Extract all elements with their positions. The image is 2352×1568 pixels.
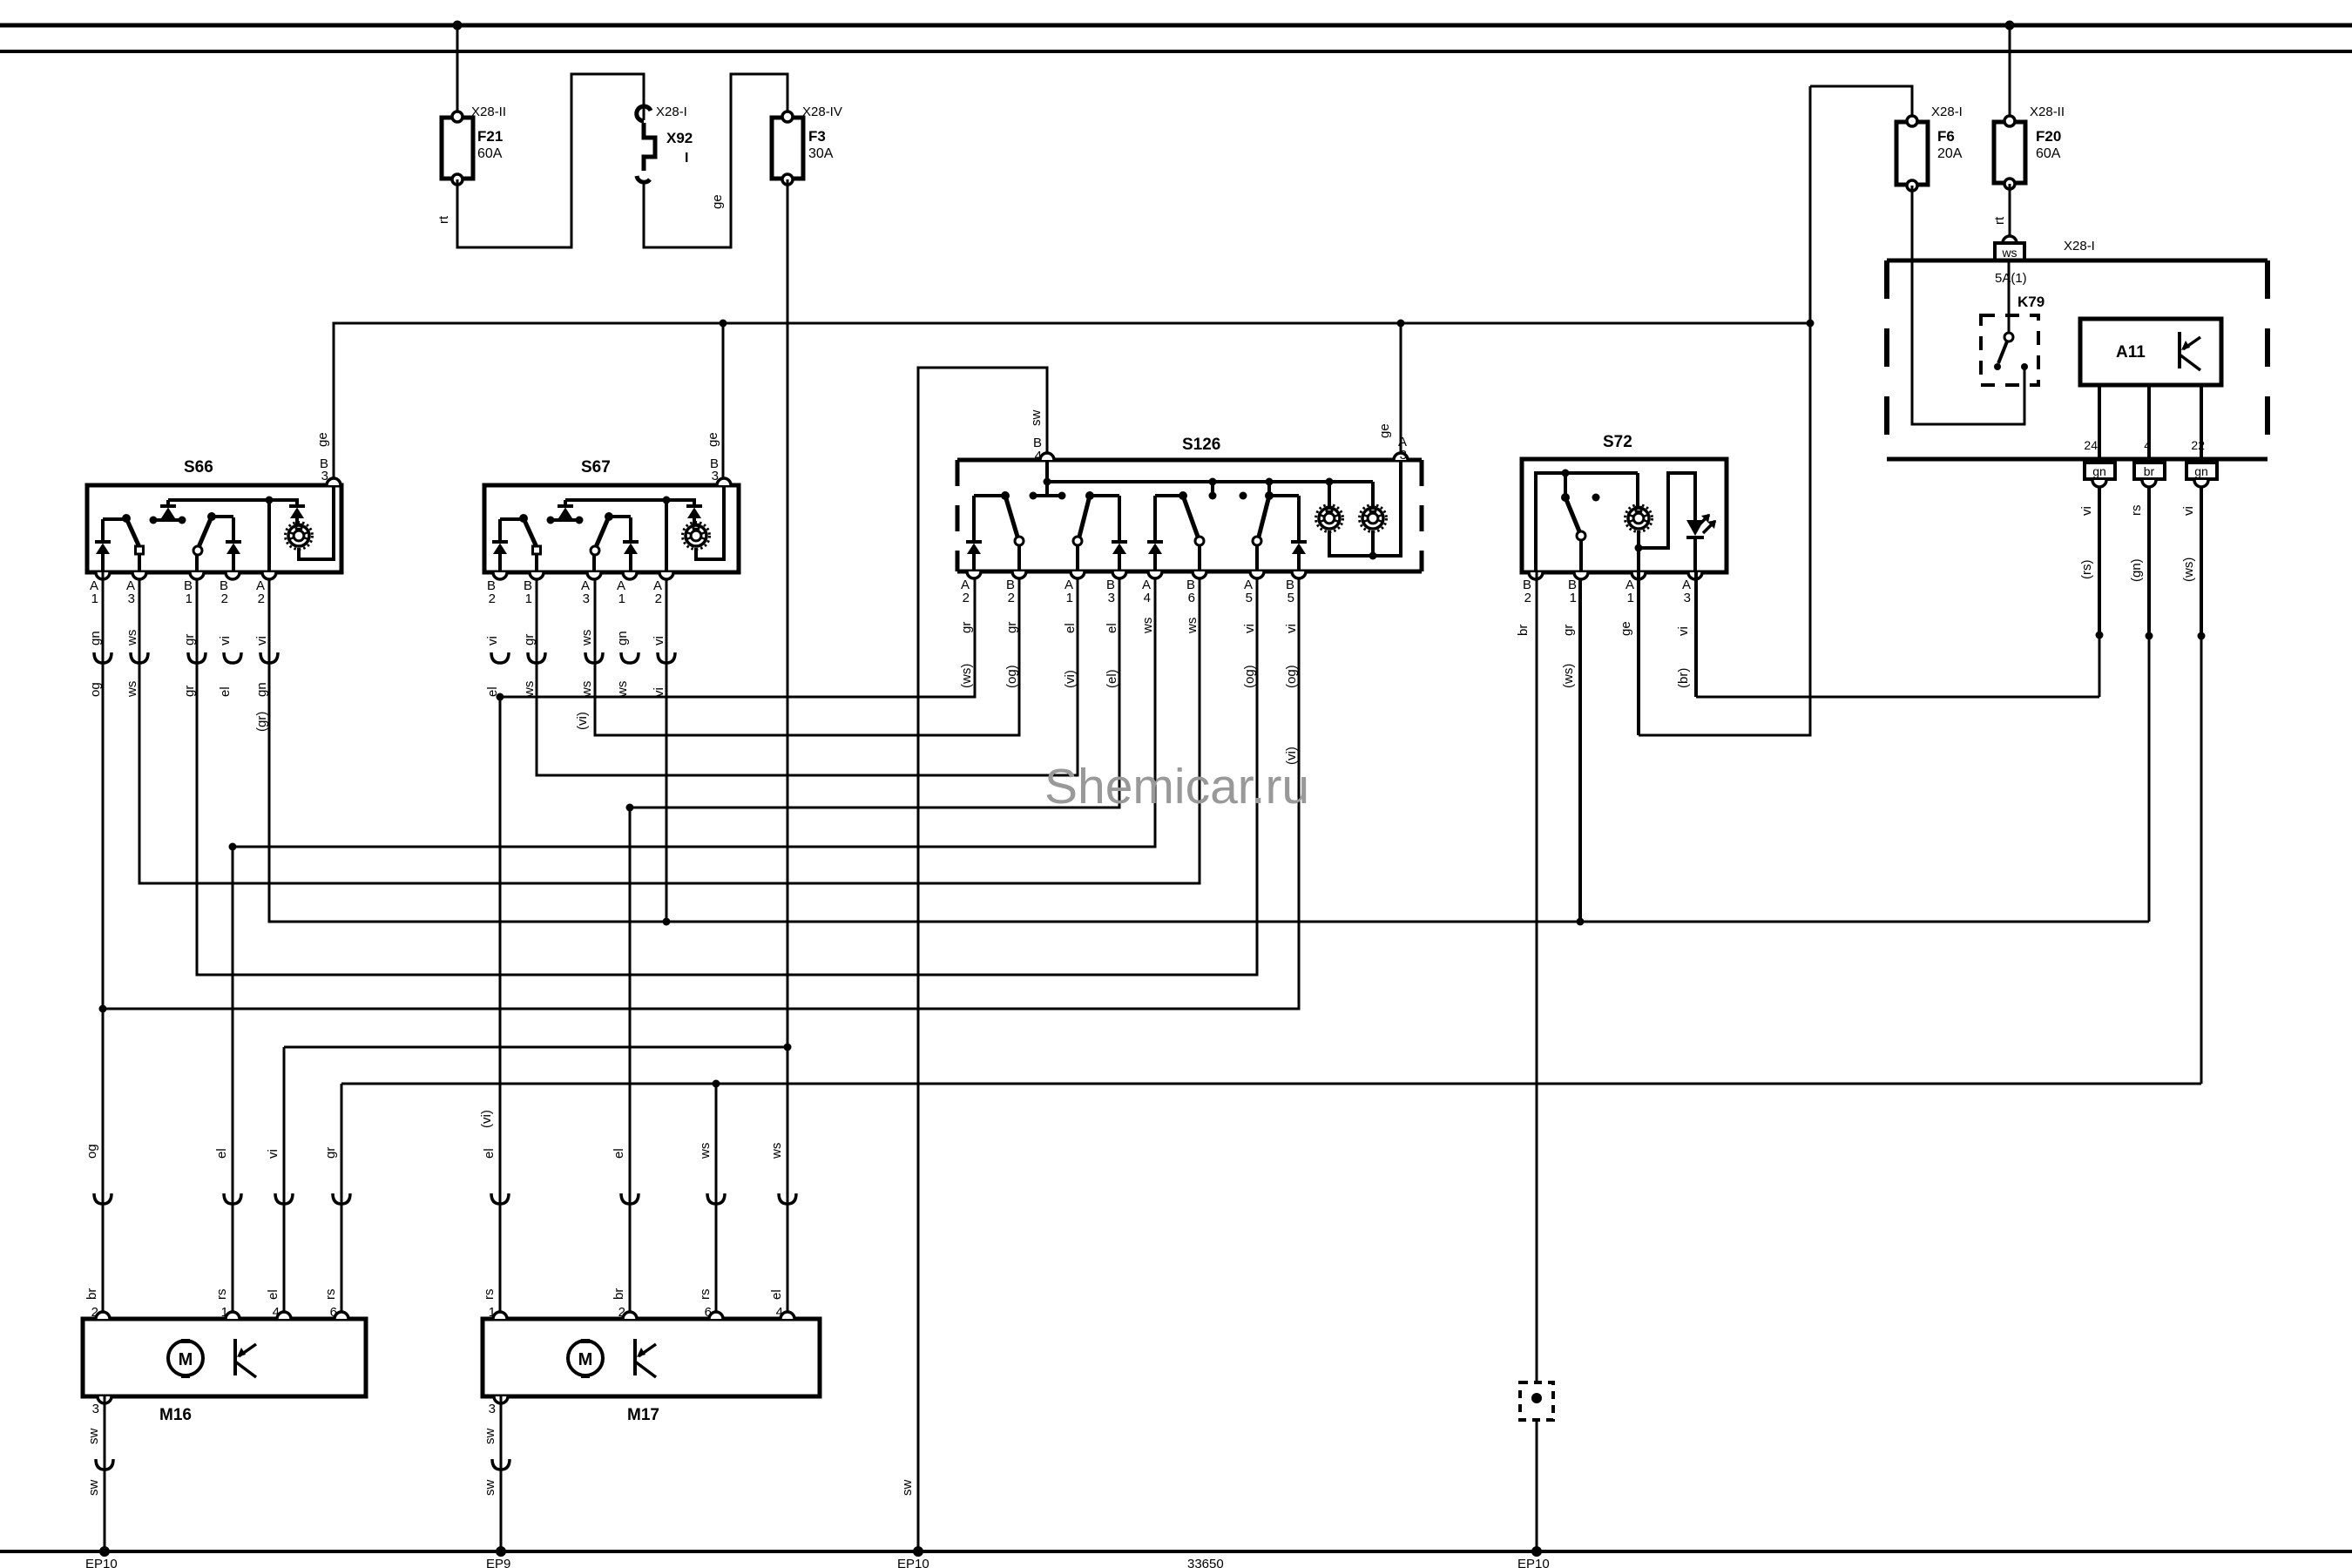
labels on M17-4 column ws el — [769, 1143, 796, 1320]
node ground EP10 S72 — [1517, 1546, 1550, 1568]
svg-text:gr: gr — [182, 686, 197, 697]
node junction S66-B2 branch — [229, 843, 237, 851]
svg-text:I: I — [685, 151, 688, 166]
svg-text:30A: 30A — [808, 146, 834, 161]
S126 wire colour labels row A — [959, 618, 1299, 634]
wire F6 feed from vertical riser — [1810, 86, 1912, 121]
svg-text:gn: gn — [615, 631, 630, 645]
node junction riser / ge-rail — [1807, 320, 1815, 328]
svg-text:(br): (br) — [1676, 668, 1691, 688]
svg-text:1: 1 — [1570, 591, 1577, 605]
svg-text:A11: A11 — [2116, 343, 2146, 362]
connector gn pin24 — [2085, 463, 2115, 487]
fuse F3 30A X28-IV — [772, 105, 842, 185]
svg-text:rs: rs — [482, 1289, 497, 1301]
wire ws connector to K79, label 5A(1) — [1995, 260, 2027, 332]
svg-text:gn: gn — [254, 682, 269, 697]
svg-text:X28-II: X28-II — [471, 105, 506, 119]
wire column S66-B2/M16-1, labels el rs — [214, 847, 241, 1320]
svg-text:EP9: EP9 — [486, 1557, 510, 1568]
svg-text:5: 5 — [1246, 591, 1253, 605]
node junction S67-A2 / pin4 net — [663, 918, 671, 926]
wire rail to S126-A3 — [1400, 323, 1402, 459]
svg-text:2: 2 — [1008, 591, 1015, 605]
wire bus to fuse F20 — [2009, 25, 2011, 121]
svg-text:og: og — [84, 1144, 99, 1159]
svg-text:3: 3 — [1400, 448, 1407, 463]
svg-text:gr: gr — [522, 634, 537, 645]
svg-text:(el): (el) — [1105, 669, 1119, 688]
wire net M16-4 to M17-4 — [284, 1046, 787, 1049]
switch S67 (window switch) box and internals — [484, 458, 739, 572]
svg-text:el: el — [482, 1148, 497, 1159]
wire S126-B4 up-left-down to EP10, label sw — [918, 368, 1047, 1551]
breaker X92 I X28-I — [637, 105, 693, 182]
svg-text:ws: ws — [1185, 618, 1200, 634]
M17 pin arcs top — [493, 1312, 794, 1319]
svg-text:1: 1 — [186, 591, 193, 606]
svg-text:ge: ge — [315, 432, 330, 447]
svg-text:el: el — [612, 1148, 626, 1159]
svg-text:el: el — [1063, 623, 1078, 633]
wire net M16-2 to S126-B5 — [103, 578, 1299, 1009]
node junction top-bus to F20 — [2005, 21, 2015, 30]
svg-text:(ws): (ws) — [959, 664, 974, 688]
svg-text:el: el — [266, 1289, 280, 1300]
svg-text:2: 2 — [258, 591, 265, 606]
svg-text:F20: F20 — [2036, 128, 2061, 145]
wire label rt — [436, 215, 451, 224]
switch S66 (window switch) box and internals — [87, 458, 341, 572]
svg-text:1: 1 — [91, 591, 98, 606]
wire column S67-B2/M17-1, labels el (vi) rs — [479, 697, 509, 1320]
wire A11 pin22, label 22 — [2191, 385, 2205, 462]
svg-text:S67: S67 — [581, 458, 611, 476]
svg-text:Shemicar.ru: Shemicar.ru — [1044, 759, 1309, 814]
label sw on S126-B4 ground wire — [900, 1480, 915, 1497]
wire net S67-A1 to S126-B3 — [630, 578, 1119, 808]
S126 switch D (A5/B5) — [1253, 491, 1307, 571]
wire net S66-A3 to S126-B6 — [139, 572, 1200, 883]
lamp L1 in S126 — [1316, 478, 1343, 532]
wire net M16-6 M17-6 to A11 pin22 — [341, 1083, 2201, 1085]
wire pin4 down, labels rs (gn) — [2129, 486, 2149, 922]
svg-text:20A: 20A — [1937, 146, 1963, 161]
thermal symbol in A11 — [2180, 332, 2200, 370]
S72 wire colour labels — [1516, 621, 1691, 688]
svg-text:2: 2 — [1524, 591, 1531, 605]
node junction pin22 wire — [2198, 632, 2206, 640]
svg-text:1: 1 — [1066, 591, 1073, 605]
svg-text:4: 4 — [2144, 438, 2151, 452]
wire S72-A3 down to pin24 rail — [1694, 572, 1698, 697]
svg-text:ge: ge — [1619, 621, 1633, 636]
node junction M17-6 / pin22 net — [713, 1080, 720, 1088]
svg-text:4: 4 — [1035, 449, 1042, 463]
wire ge rail to S66-B3 — [334, 323, 1810, 478]
wire F6 down to K79 contact — [1912, 186, 2024, 424]
svg-text:vi: vi — [1284, 624, 1299, 633]
svg-text:2: 2 — [963, 591, 970, 605]
svg-text:rt: rt — [1992, 216, 2007, 225]
svg-text:gr: gr — [959, 622, 974, 633]
svg-text:gr: gr — [182, 634, 197, 645]
svg-text:ge: ge — [1377, 423, 1392, 438]
fuse F6 20A X28-I — [1896, 105, 1963, 191]
S126 wire colour labels row B — [959, 664, 1299, 765]
svg-text:vi: vi — [254, 636, 269, 645]
node junction pin4 wire — [2146, 632, 2153, 640]
S126 pin arcs — [967, 453, 1408, 578]
svg-text:(gr): (gr) — [254, 712, 269, 732]
svg-text:X28-I: X28-I — [1931, 105, 1963, 119]
module boundary dashed box — [1887, 260, 2268, 459]
node junction F3 column / M16-4 branch — [784, 1044, 792, 1051]
wire column M17-6, labels ws rs — [698, 1084, 725, 1320]
svg-text:60A: 60A — [477, 146, 503, 161]
wire pin22 down, labels vi (ws) — [2181, 486, 2201, 1084]
svg-text:60A: 60A — [2036, 146, 2061, 161]
svg-text:3: 3 — [1108, 591, 1115, 605]
wire M17-3 to EP9, labels sw — [483, 1396, 510, 1551]
node junction rail / S67-B3 — [720, 320, 727, 328]
node junction S72-B1 / pin4 net — [1577, 918, 1585, 926]
svg-text:vi: vi — [2079, 506, 2094, 516]
S72 internal rail — [1536, 473, 1638, 572]
svg-text:1: 1 — [525, 591, 532, 606]
svg-text:5: 5 — [1288, 591, 1294, 605]
svg-text:vi: vi — [1676, 626, 1691, 636]
svg-text:X28-IV: X28-IV — [802, 105, 842, 119]
wire bus to fuse F21 — [456, 25, 459, 117]
motor M17 box — [483, 1319, 820, 1424]
wire top supply bus 1 — [0, 24, 2352, 28]
svg-text:br: br — [612, 1288, 626, 1300]
svg-text:EP10: EP10 — [85, 1557, 118, 1568]
svg-text:S66: S66 — [184, 458, 213, 476]
svg-text:vi: vi — [485, 636, 500, 645]
svg-text:sw: sw — [900, 1480, 915, 1497]
svg-text:X28-I: X28-I — [2064, 239, 2095, 253]
svg-text:2: 2 — [489, 591, 496, 606]
svg-text:33650: 33650 — [1187, 1557, 1224, 1568]
svg-text:ge: ge — [706, 432, 720, 447]
label 33650 — [1187, 1557, 1224, 1568]
svg-text:6: 6 — [1188, 591, 1195, 605]
wire bottom ground bus — [0, 1550, 2352, 1553]
svg-text:(rs): (rs) — [2079, 560, 2094, 580]
node junction lamp bottom — [1635, 544, 1643, 552]
S72 pin labels — [1523, 578, 1691, 605]
svg-text:gr: gr — [1004, 622, 1019, 633]
svg-text:3: 3 — [321, 469, 328, 483]
svg-text:sw: sw — [483, 1480, 497, 1497]
svg-text:ws: ws — [615, 681, 630, 698]
node junction top-bus to F21 — [453, 21, 463, 30]
svg-text:vi: vi — [1242, 624, 1257, 633]
svg-text:S72: S72 — [1603, 433, 1632, 451]
wire S72-B2 to ground EP10 — [1536, 572, 1538, 1551]
wire net S66-B1 to S126-A5 — [197, 572, 1257, 975]
node neutral contact left of switch D — [1240, 492, 1247, 500]
wire A11 pin24, label 24 — [2084, 385, 2099, 462]
svg-text:22: 22 — [2191, 438, 2205, 452]
wire F3 down to M17 pin4 column — [787, 179, 789, 1318]
node junction rail B4 — [1044, 478, 1051, 486]
svg-text:(vi): (vi) — [575, 712, 590, 730]
svg-text:X28-I: X28-I — [656, 105, 687, 119]
svg-text:rt: rt — [436, 215, 451, 224]
svg-text:el: el — [214, 1148, 229, 1159]
node junction M16-2 branch — [99, 1005, 107, 1013]
svg-text:sw: sw — [483, 1429, 497, 1445]
wire lamp bottoms to A3 riser — [1329, 460, 1401, 560]
node junction rail / S126-A3 — [1397, 320, 1405, 328]
connector ws X28-I — [1995, 236, 2095, 260]
lamp in S72 — [1625, 473, 1652, 572]
svg-text:ws: ws — [579, 681, 594, 698]
svg-text:sw: sw — [1029, 410, 1044, 427]
wire net S67-B1 to S126-A1 — [537, 572, 1078, 775]
svg-text:24: 24 — [2084, 438, 2098, 452]
svg-text:vi: vi — [266, 1149, 280, 1159]
svg-text:vi: vi — [652, 687, 666, 697]
watermark — [1044, 759, 1309, 814]
svg-text:(gn): (gn) — [2129, 558, 2144, 582]
svg-text:(vi): (vi) — [1063, 670, 1078, 688]
wire A11 pin4, label 4 — [2144, 385, 2151, 462]
neutral contacts at B4 — [1030, 492, 1066, 500]
svg-text:ws: ws — [125, 681, 139, 698]
lamp L2 in S126 — [1360, 505, 1387, 532]
svg-text:gn: gn — [2092, 464, 2106, 478]
svg-text:gr: gr — [1561, 625, 1576, 636]
node ground EP9 M17 — [486, 1546, 510, 1568]
svg-text:3: 3 — [1684, 591, 1691, 605]
wire X92 to F3, label ge — [644, 74, 787, 247]
svg-text:M16: M16 — [159, 1406, 192, 1424]
motor M16 box — [83, 1319, 366, 1424]
svg-text:3: 3 — [712, 469, 719, 483]
svg-text:rs: rs — [214, 1289, 229, 1301]
wire S72-A1 to riser — [1637, 572, 1640, 735]
svg-text:3: 3 — [92, 1402, 99, 1416]
svg-text:F21: F21 — [477, 128, 503, 145]
M16 pin arcs top — [96, 1312, 348, 1319]
wire column M16-6, labels gr rs — [323, 1084, 350, 1320]
node junction S67-A1 branch — [626, 804, 634, 812]
svg-text:gn: gn — [2194, 464, 2208, 478]
svg-text:3: 3 — [489, 1402, 496, 1416]
svg-text:ws: ws — [769, 1143, 784, 1159]
svg-text:el: el — [769, 1289, 784, 1300]
svg-text:1: 1 — [1627, 591, 1634, 605]
svg-text:vi: vi — [218, 636, 233, 645]
svg-text:2: 2 — [221, 591, 228, 606]
svg-text:br: br — [84, 1288, 99, 1300]
svg-text:K79: K79 — [2017, 294, 2044, 310]
svg-text:gr: gr — [323, 1147, 338, 1159]
node neutral contact right of B6 — [1209, 478, 1217, 500]
node rail stub to switch D pivot — [1266, 478, 1274, 494]
svg-text:2: 2 — [655, 591, 662, 606]
svg-text:sw: sw — [86, 1429, 101, 1445]
svg-text:el: el — [218, 686, 233, 697]
svg-text:rs: rs — [698, 1289, 713, 1301]
wire M16-3 to EP10, labels sw — [86, 1396, 113, 1551]
wire net S67-B2 to S126-A2 — [500, 578, 975, 697]
wire pin24 down to S72-A3 rail, labels vi (rs) — [2079, 486, 2099, 697]
node ground EP10 M16 — [85, 1546, 118, 1568]
svg-text:el: el — [485, 686, 500, 697]
fuse F21 60A X28-II — [442, 105, 506, 185]
node junction pin24 wire — [2096, 632, 2104, 639]
wire S72-B1 drop to pin4 net — [1578, 572, 1582, 922]
svg-text:(og): (og) — [1004, 665, 1019, 688]
svg-text:ge: ge — [710, 194, 725, 209]
node junction S67-B2 branch — [497, 693, 504, 701]
S126 switch A (A2/B2) — [966, 491, 1024, 571]
wire rail to S67-B3 — [722, 323, 725, 478]
switch unit S126 box — [957, 436, 1422, 571]
wire net S66-B2 to S126-A4 — [233, 578, 1155, 847]
relay K79 switch — [1994, 333, 2028, 370]
svg-text:X28-II: X28-II — [2030, 105, 2065, 119]
svg-text:(vi): (vi) — [479, 1110, 494, 1128]
wire S126 internal rail — [1047, 460, 1373, 506]
connector gn pin22 — [2186, 463, 2217, 487]
svg-text:(og): (og) — [1284, 665, 1299, 688]
S126 switch B (A1/B3) — [1073, 491, 1127, 571]
wire riser x2078 down to S72-A1 — [1639, 86, 1810, 735]
svg-text:ws: ws — [698, 1143, 713, 1159]
wire net S66-A2 to A11 pin4 — [269, 572, 2149, 922]
wire F21 to X92 — [457, 74, 644, 247]
S72 switch — [1561, 470, 1600, 573]
svg-text:vi: vi — [652, 636, 666, 645]
svg-text:rs: rs — [323, 1289, 338, 1301]
wire column M16-4, labels vi el — [266, 1047, 293, 1320]
svg-text:ws: ws — [2001, 246, 2017, 260]
relay K79 dashed box — [1981, 294, 2044, 385]
svg-text:M17: M17 — [627, 1406, 659, 1424]
S72 pin arcs — [1529, 572, 1702, 579]
module A11 box — [2080, 319, 2221, 385]
wire column S67-A1/M17-2, labels el br — [612, 808, 639, 1320]
svg-text:(ws): (ws) — [2181, 558, 2196, 582]
svg-text:F6: F6 — [1937, 128, 1955, 145]
svg-text:F3: F3 — [808, 128, 826, 145]
svg-text:X92: X92 — [666, 130, 693, 146]
wire F20 to connector, label rt — [1992, 184, 2010, 237]
wire S67-A2 drop to pin4 net — [666, 572, 668, 922]
svg-text:ws: ws — [1140, 618, 1155, 634]
svg-text:ws: ws — [125, 630, 139, 646]
svg-text:gn: gn — [88, 631, 103, 645]
fuse F20 60A X28-II — [1994, 105, 2065, 189]
connector br pin4 — [2134, 463, 2165, 487]
svg-text:1: 1 — [618, 591, 625, 606]
svg-text:3: 3 — [583, 591, 590, 606]
svg-text:(og): (og) — [1242, 665, 1257, 688]
LED branch in S72 — [1639, 473, 1716, 572]
svg-text:4: 4 — [1144, 591, 1151, 605]
wire top supply bus 2 — [0, 50, 2352, 53]
svg-text:ws: ws — [522, 681, 537, 698]
wire net S67-A3 to S126-B2, label (vi) — [575, 572, 1019, 735]
svg-text:vi: vi — [2181, 506, 2196, 516]
switch S72 box — [1522, 433, 1727, 572]
svg-text:3: 3 — [128, 591, 135, 606]
wire S72-A3 to pin24 horizontal — [1696, 696, 2099, 699]
S126 pin labels — [961, 423, 1407, 605]
svg-text:EP10: EP10 — [897, 1557, 929, 1568]
svg-text:br: br — [2144, 464, 2155, 478]
svg-text:el: el — [1105, 623, 1119, 633]
svg-text:M: M — [578, 1350, 593, 1369]
svg-text:rs: rs — [2129, 505, 2144, 517]
svg-text:sw: sw — [86, 1480, 101, 1497]
connector on S72-B2 wire — [1520, 1382, 1553, 1420]
svg-text:br: br — [1516, 625, 1531, 636]
svg-text:(ws): (ws) — [1561, 664, 1576, 688]
svg-text:S126: S126 — [1182, 436, 1220, 454]
wire column S66-A1/M16-2, labels og br — [84, 572, 112, 1320]
node ground EP10 S126 — [897, 1546, 929, 1568]
svg-text:og: og — [88, 682, 103, 697]
svg-text:M: M — [179, 1350, 193, 1369]
S126 switch C (A4/B6) — [1147, 491, 1204, 571]
svg-text:EP10: EP10 — [1517, 1557, 1550, 1568]
svg-text:5A(1): 5A(1) — [1995, 271, 2027, 286]
svg-text:ws: ws — [579, 630, 594, 646]
